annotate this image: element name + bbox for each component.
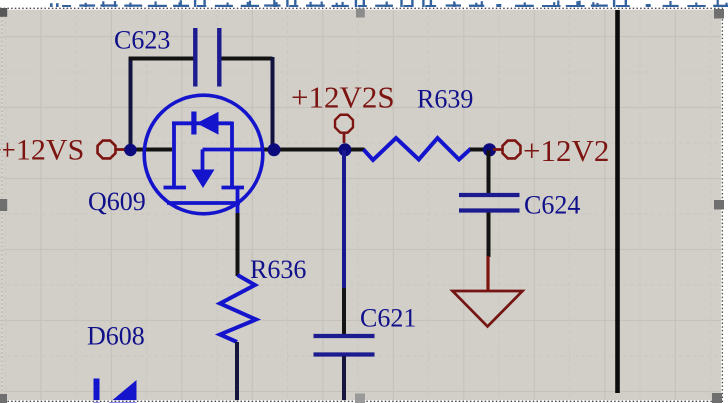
selection handle top-right (714, 9, 724, 19)
capacitor C623 plates (195, 28, 219, 87)
wire C624 bottom drop (487, 213, 491, 258)
selection handle top-left (0, 8, 7, 17)
wire R636 bottom drop (235, 342, 239, 401)
transistor Q609 circle body (144, 95, 263, 214)
selection handle bottom-left (0, 394, 7, 403)
selection border right (721, 8, 723, 400)
junction node at C623 left (124, 144, 136, 156)
wire R639 right stub (470, 148, 490, 152)
black vertical divider line (615, 10, 620, 393)
wire to ground (maroon) (486, 256, 489, 290)
wire Q609 drain drop (236, 213, 240, 276)
diode D608 triangle (109, 380, 137, 403)
svg-text:C624: C624 (524, 191, 580, 220)
ground (453, 291, 523, 327)
Q609 body diode triangle (197, 112, 219, 135)
wire +12V2 port link (493, 148, 503, 151)
capacitor C621 plates (314, 336, 375, 355)
wire C623 right leg (271, 57, 275, 146)
port +12V2S octagon (335, 115, 353, 133)
wire main horizontal left segment (124, 148, 172, 152)
wire +12VS port stub (116, 148, 127, 151)
junction node at C623 right (268, 143, 281, 156)
wire +12V2S port stub (343, 133, 346, 144)
wire C623 top-left horizontal (129, 57, 194, 61)
wire main horizontal right segment (262, 148, 352, 152)
selection handle top-middle (356, 9, 365, 18)
selection border top (0, 7, 724, 10)
wire C621 top drop (dark) (342, 288, 346, 335)
svg-text:Q609: Q609 (88, 187, 146, 216)
svg-text:+12V2: +12V2 (523, 133, 609, 168)
port +12V2 octagon (503, 141, 521, 159)
wire C623 left leg (129, 57, 133, 147)
Q609 arrow (192, 170, 215, 189)
wire C623 top-right horizontal (222, 57, 273, 61)
Q609 body diode cathode bar (191, 112, 196, 135)
svg-text:C623: C623 (114, 26, 170, 55)
junction node +12V2S (339, 143, 352, 156)
resistor R636 (220, 275, 256, 342)
resistor R639 (364, 138, 472, 160)
clipped document text line (bottoms of blue Chinese sentence) (50, 0, 728, 7)
wire C621 bottom drop (342, 356, 346, 401)
port +12VS octagon (98, 141, 116, 159)
selection handle left-middle (0, 199, 7, 211)
transistor Q609 internals (164, 122, 264, 215)
selection handle bottom-right (712, 393, 722, 403)
diode D608 cathode bar (94, 379, 100, 403)
svg-text:+12V2S: +12V2S (291, 80, 395, 115)
selection border left (1, 8, 3, 401)
selection handle right-middle (714, 200, 724, 210)
wire R639 left stub (351, 148, 365, 152)
selection handle bottom-middle (355, 394, 365, 403)
svg-text:R639: R639 (417, 85, 473, 114)
svg-text:D608: D608 (87, 322, 145, 351)
svg-text:C621: C621 (360, 304, 416, 333)
junction node +12V2 (483, 143, 496, 156)
capacitor C624 plates (459, 195, 520, 211)
svg-text:R636: R636 (250, 255, 306, 284)
svg-text:+12VS: +12VS (0, 134, 84, 167)
selection border bottom (0, 400, 724, 402)
wire C621 top drop (navy) (342, 150, 346, 288)
wire C624 top drop (487, 150, 491, 194)
